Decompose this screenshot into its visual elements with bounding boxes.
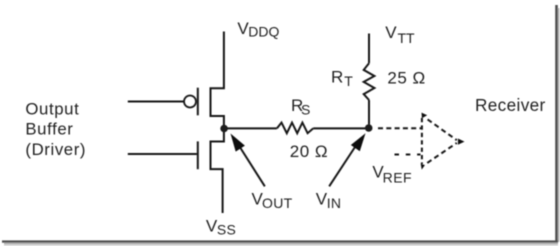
wire dashed VREF input <box>395 154 421 156</box>
svg-text:T: T <box>344 73 353 89</box>
wire RS to VIN node <box>313 127 369 129</box>
resistor RS zigzag <box>277 123 313 134</box>
svg-text:DDQ: DDQ <box>248 24 279 40</box>
transistor Q2 NMOS channel and source lead <box>211 128 224 213</box>
label VDDQ <box>237 19 279 40</box>
label VOUT <box>252 190 293 212</box>
receiver triangle top-left arrowhead <box>422 113 428 119</box>
label VSS <box>206 216 236 237</box>
wire PMOS gate lead <box>128 101 184 103</box>
svg-text:S: S <box>301 102 310 118</box>
transistor Q2 NMOS gate bar <box>197 141 199 169</box>
node VIN junction dot <box>365 124 373 132</box>
callout arrow to VIN node <box>329 133 365 186</box>
svg-text:V: V <box>385 23 397 42</box>
label RT <box>331 68 353 89</box>
frame bottom border <box>2 240 558 242</box>
transistor Q1 PMOS gate bar <box>197 88 199 116</box>
receiver triangle left edge dashed <box>421 118 423 164</box>
svg-text:TT: TT <box>398 30 416 46</box>
svg-text:OUT: OUT <box>262 195 293 211</box>
label VTT <box>385 23 415 46</box>
callout arrow to VOUT node <box>231 134 265 187</box>
svg-text:Buffer: Buffer <box>25 120 73 139</box>
wire NMOS gate lead <box>128 153 197 155</box>
svg-text:R: R <box>331 68 343 87</box>
label VIN <box>316 190 342 212</box>
receiver triangle bottom edge dashed <box>427 143 457 163</box>
wire dashed VIN node to receiver <box>378 127 422 129</box>
receiver triangle top edge dashed <box>428 119 457 140</box>
svg-text:20 Ω: 20 Ω <box>290 142 328 161</box>
svg-text:SS: SS <box>217 221 236 237</box>
label RS <box>291 96 310 118</box>
svg-text:IN: IN <box>327 195 342 211</box>
resistor RT zigzag <box>364 63 375 100</box>
node VOUT junction dot <box>220 125 228 133</box>
svg-text:REF: REF <box>383 169 413 185</box>
transistor Q1 PMOS gate bubble <box>184 96 196 108</box>
receiver triangle apex arrowhead <box>458 139 465 145</box>
svg-text:Receiver: Receiver <box>475 95 546 115</box>
label VREF <box>372 162 412 185</box>
label Output Buffer (Driver) <box>25 99 86 158</box>
wire VDDQ rail and PMOS channel <box>211 32 224 129</box>
receiver triangle bottom-left arrowhead <box>421 164 425 170</box>
svg-text:Output: Output <box>25 99 79 118</box>
wire output node to RS <box>224 127 277 129</box>
wire RT to VIN node <box>368 100 370 124</box>
svg-text:25 Ω: 25 Ω <box>387 69 425 88</box>
svg-text:(Driver): (Driver) <box>25 140 86 159</box>
wire VTT lead <box>368 34 370 64</box>
